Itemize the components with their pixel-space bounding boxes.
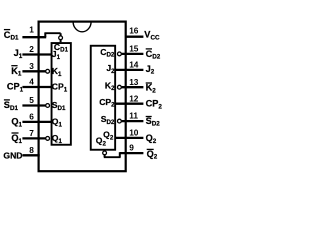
svg-text:15: 15	[129, 44, 139, 54]
svg-text:12: 12	[129, 93, 139, 103]
svg-text:GND: GND	[3, 150, 22, 160]
svg-text:6: 6	[29, 112, 34, 122]
svg-text:1: 1	[29, 25, 34, 35]
svg-text:5: 5	[29, 95, 34, 105]
svg-text:7: 7	[29, 128, 34, 138]
svg-text:14: 14	[129, 60, 139, 70]
svg-text:8: 8	[29, 145, 34, 155]
svg-text:13: 13	[129, 77, 139, 87]
svg-text:9: 9	[129, 143, 134, 153]
svg-text:10: 10	[129, 128, 139, 138]
svg-text:16: 16	[129, 25, 139, 35]
svg-text:4: 4	[29, 77, 34, 87]
svg-text:2: 2	[29, 44, 34, 54]
svg-text:3: 3	[29, 61, 34, 71]
svg-text:11: 11	[129, 111, 138, 121]
